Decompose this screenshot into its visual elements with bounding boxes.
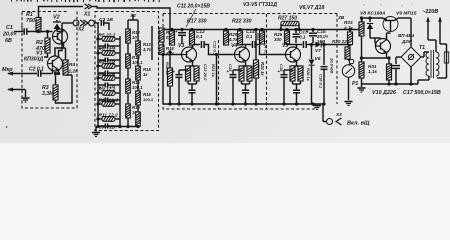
capacitor C17 bbox=[390, 57, 402, 84]
main supply bus bbox=[163, 29, 362, 31]
svg-text:КП303Д: КП303Д bbox=[24, 57, 43, 63]
transformer secondary winding bbox=[436, 52, 439, 76]
arrow mic shield bbox=[7, 88, 26, 92]
svg-text:Д2Ж: Д2Ж bbox=[401, 39, 413, 44]
resistor R1 bbox=[36, 18, 41, 33]
diode V7 bbox=[287, 41, 352, 48]
zener V8 bbox=[367, 16, 373, 38]
wire shield to gnd bbox=[25, 90, 27, 98]
resistor col B2 bbox=[136, 55, 152, 80]
label C14 rot bbox=[330, 57, 335, 73]
svg-text:R22 330: R22 330 bbox=[232, 19, 252, 25]
svg-text:0,1: 0,1 bbox=[299, 35, 306, 40]
svg-text:Вкл. вЩ: Вкл. вЩ bbox=[347, 121, 370, 127]
svg-text:R27 150: R27 150 bbox=[278, 16, 297, 22]
coupling cap st3 bbox=[240, 41, 285, 56]
svg-text:С12 0,1: С12 0,1 bbox=[213, 41, 218, 56]
wire bottom to tone bbox=[162, 55, 164, 105]
svg-text:С2 0,1: С2 0,1 bbox=[29, 67, 44, 73]
svg-text:+: + bbox=[21, 25, 24, 31]
svg-text:С17 500,0×15В: С17 500,0×15В bbox=[403, 90, 441, 96]
label Vkl bbox=[347, 121, 370, 127]
svg-text:R18 1к: R18 1к bbox=[165, 62, 170, 76]
label 220V bbox=[422, 9, 438, 15]
transistor V3 bbox=[182, 47, 197, 62]
svg-text:R33: R33 bbox=[344, 20, 353, 25]
fuse bbox=[437, 52, 449, 78]
transistor V4 bbox=[235, 47, 250, 62]
svg-text:R28 1к: R28 1к bbox=[306, 68, 311, 82]
resistor-capacitor row 2 bbox=[96, 47, 120, 64]
scan smudges top right bbox=[363, 3, 412, 6]
meter P1 bbox=[342, 65, 358, 87]
wire bridge bottom bbox=[410, 67, 412, 84]
svg-text:X2: X2 bbox=[77, 27, 84, 33]
wire collector V3 bbox=[191, 45, 194, 48]
svg-text:6В: 6В bbox=[5, 38, 12, 44]
resistor R4 bbox=[63, 48, 68, 75]
capacitor bypass V5 bbox=[278, 64, 293, 104]
wire X2 into box bbox=[95, 22, 100, 24]
label V10 D226 bbox=[372, 90, 397, 96]
label R30 22k bbox=[332, 39, 350, 44]
wire collector V4 bbox=[240, 45, 246, 48]
psu rail bbox=[362, 18, 383, 30]
label C10 rot bbox=[203, 64, 208, 81]
resistor-capacitor row 3 bbox=[96, 60, 120, 77]
svg-text:R8 12,2: R8 12,2 bbox=[99, 72, 116, 78]
label st2b rot bbox=[256, 64, 261, 79]
resistor R31 left bbox=[359, 58, 364, 84]
label V4 bbox=[231, 43, 237, 49]
resistor R12 bbox=[126, 20, 141, 43]
svg-text:С11 20,0×15В: С11 20,0×15В bbox=[177, 4, 210, 10]
label C13 0,1 bbox=[299, 30, 308, 40]
capacitor V5 bottom bbox=[293, 86, 300, 104]
svg-text:R10 12,2: R10 12,2 bbox=[99, 98, 119, 104]
label r20 bbox=[165, 62, 170, 76]
label R2 470 bbox=[35, 40, 45, 52]
svg-text:V3-V5 ГТ311Д: V3-V5 ГТ311Д bbox=[243, 2, 277, 8]
svg-text:+: + bbox=[175, 29, 178, 34]
resistor-capacitor row 4 bbox=[96, 72, 120, 89]
wire stage1 out bbox=[192, 45, 194, 48]
svg-text:R21 1к: R21 1к bbox=[211, 64, 216, 78]
capacitor C15 electrolytic bbox=[306, 28, 317, 43]
ground meter bbox=[345, 102, 353, 106]
resistor R13 bbox=[126, 43, 144, 68]
label C11 20,0x15B bbox=[177, 4, 210, 10]
svg-text:ВП-4В4: ВП-4В4 bbox=[398, 33, 415, 38]
dashed box tone bbox=[95, 12, 159, 131]
resistor emitter V4 pair bbox=[239, 66, 252, 86]
wire tone top right bbox=[128, 13, 152, 60]
resistor R34 bbox=[360, 56, 392, 84]
svg-text:V4: V4 bbox=[231, 43, 237, 49]
label R22 330 bbox=[232, 19, 252, 25]
dashed box amplifier bbox=[163, 14, 337, 110]
capacitor C10 bottom bbox=[189, 86, 196, 104]
svg-text:С13 20,0: С13 20,0 bbox=[203, 64, 208, 81]
svg-text:10: 10 bbox=[132, 35, 137, 40]
resistor R24 bbox=[238, 28, 243, 45]
label V5 bbox=[282, 43, 288, 49]
wire bottom left block bbox=[56, 75, 73, 103]
label R21 rot bbox=[211, 64, 216, 78]
connector X3 bbox=[327, 118, 342, 125]
connector X1 bbox=[85, 4, 93, 9]
svg-text:V7: V7 bbox=[315, 48, 321, 54]
wire bias stage1 bbox=[215, 53, 218, 106]
scan artifact top edge bbox=[11, 0, 160, 2]
svg-text:R5 22,2: R5 22,2 bbox=[99, 33, 116, 39]
dashed divider stage3 bbox=[266, 14, 268, 109]
coupling cap C12 bbox=[193, 41, 235, 56]
transistor V1a bbox=[53, 29, 68, 44]
label X3 bbox=[335, 112, 342, 117]
resistor-capacitor row 5 bbox=[96, 87, 120, 104]
bridge rectifier bbox=[401, 47, 421, 67]
resistor R16b bbox=[159, 45, 175, 56]
transistor V9 bbox=[383, 17, 398, 32]
resistor lower st2 bbox=[254, 28, 259, 104]
label C1 20,0x6B bbox=[2, 25, 17, 44]
svg-text:R11 12,2: R11 12,2 bbox=[99, 113, 118, 119]
dashed box preamp bbox=[22, 12, 77, 109]
svg-text:X1: X1 bbox=[83, 12, 90, 18]
resistor-capacitor row 7 bbox=[96, 113, 120, 130]
svg-text:0,1: 0,1 bbox=[196, 34, 203, 39]
wire X1 to tone box bbox=[93, 7, 171, 30]
svg-text:V9 МП15: V9 МП15 bbox=[396, 11, 417, 17]
label V8 V9 bbox=[360, 11, 417, 17]
label C17 500 bbox=[403, 90, 441, 96]
label 3B bbox=[338, 15, 345, 21]
wire emitter V4 bbox=[242, 61, 250, 66]
transistor V1b bbox=[48, 56, 63, 71]
label VP bbox=[398, 33, 415, 44]
label st2 rot bbox=[260, 62, 265, 76]
mains terminal 2 bbox=[438, 17, 446, 53]
wire meter down bbox=[348, 77, 350, 100]
label R1 750 bbox=[26, 12, 35, 24]
label R31 bbox=[368, 64, 378, 74]
wire tone bottom bbox=[96, 125, 139, 128]
wire bridge to transformer bbox=[421, 52, 427, 57]
connector X2 bbox=[73, 20, 94, 26]
svg-text:R30 22к: R30 22к bbox=[332, 39, 350, 44]
svg-text:R4: R4 bbox=[69, 62, 75, 68]
label C14 0,1 bbox=[246, 29, 255, 39]
resistor R30 bbox=[343, 20, 354, 45]
capacitor C11 filter bbox=[175, 28, 186, 44]
svg-text:4,7к: 4,7к bbox=[343, 26, 354, 31]
capacitor C13 bbox=[293, 28, 300, 43]
svg-text:С1: С1 bbox=[6, 25, 13, 31]
transformer primary winding bbox=[426, 52, 429, 76]
wire base V3 bbox=[161, 53, 181, 56]
resistor R32 bbox=[359, 16, 364, 42]
resistor R3 bbox=[53, 72, 58, 100]
svg-text:4,7к: 4,7к bbox=[142, 47, 152, 52]
svg-text:V2: V2 bbox=[53, 15, 60, 21]
psu ground bus bbox=[362, 82, 419, 85]
label V3 bbox=[178, 43, 184, 49]
wire V9 collector bbox=[398, 18, 411, 47]
label C15 bbox=[316, 29, 329, 44]
bottom bus bbox=[163, 102, 326, 105]
wire tone gnd stub bbox=[96, 127, 98, 132]
label R4 1,2k bbox=[69, 62, 79, 75]
svg-text:330: 330 bbox=[274, 37, 282, 42]
svg-text:~220В: ~220В bbox=[422, 9, 438, 15]
diode V2 bbox=[53, 20, 61, 32]
resistor R21 emitter pair bbox=[186, 66, 200, 86]
svg-text:У2: У2 bbox=[130, 13, 136, 18]
resistor-capacitor row 6 bbox=[96, 98, 120, 107]
svg-text:+: + bbox=[390, 62, 393, 67]
label R3 3,3M bbox=[42, 85, 54, 97]
label st3b rot bbox=[306, 68, 311, 82]
svg-text:750: 750 bbox=[26, 18, 35, 24]
capacitor C3 bbox=[101, 20, 109, 30]
resistor R17a bbox=[170, 28, 175, 45]
scan speck bottom left bbox=[6, 126, 8, 128]
resistor R16 bbox=[126, 93, 141, 127]
mains terminal 1 bbox=[426, 17, 436, 53]
label V6 V7 bbox=[299, 5, 324, 11]
wire out to X2 bbox=[44, 53, 48, 57]
label Mkr bbox=[2, 67, 13, 73]
resistor R19 bbox=[190, 28, 195, 45]
resistor col B4 bbox=[136, 105, 141, 126]
svg-text:V6,V7 Д18: V6,V7 Д18 bbox=[299, 5, 324, 11]
wire collector V1b up bbox=[59, 23, 63, 57]
label X1 bbox=[83, 12, 90, 18]
svg-text:V3: V3 bbox=[178, 43, 184, 49]
capacitor C2 bbox=[38, 68, 52, 77]
svg-text:Р1: Р1 bbox=[352, 81, 358, 87]
wire emitter V5 bbox=[293, 61, 301, 66]
wire collector V1a bbox=[57, 29, 64, 32]
svg-text:1,2к: 1,2к bbox=[69, 69, 79, 75]
resistor R2 bbox=[45, 32, 50, 54]
svg-text:R24 1к: R24 1к bbox=[260, 62, 265, 76]
ground mic bbox=[22, 98, 30, 102]
transistor V5 bbox=[286, 47, 301, 62]
resistor R16a bbox=[159, 28, 174, 42]
resistor R15 bbox=[126, 68, 144, 93]
ground psu bbox=[358, 84, 366, 92]
capacitor C9 bypass bbox=[173, 69, 189, 104]
wire V10 links bbox=[362, 33, 391, 58]
arrow C11 bbox=[186, 9, 196, 27]
input node wire bbox=[161, 28, 164, 55]
resistor-capacitor row 1 bbox=[96, 33, 120, 50]
svg-text:1,1к: 1,1к bbox=[368, 69, 378, 74]
wire x3 down bbox=[323, 104, 326, 122]
label V1 KP303D bbox=[24, 51, 43, 63]
svg-text:100,1: 100,1 bbox=[143, 97, 154, 102]
svg-text:3,3М: 3,3М bbox=[42, 91, 54, 97]
wire V10 base bbox=[370, 38, 381, 43]
svg-text:R23: R23 bbox=[256, 33, 261, 41]
diode V6 bbox=[309, 45, 315, 105]
svg-text:+: + bbox=[227, 69, 230, 74]
resistor emitter V5 pair bbox=[290, 66, 303, 86]
label R27 150 bbox=[278, 16, 297, 22]
capacitor C1 bbox=[14, 25, 27, 35]
svg-text:V10 Д226: V10 Д226 bbox=[372, 90, 397, 96]
svg-text:R9 12,2: R9 12,2 bbox=[99, 87, 116, 93]
svg-text:20,0×6В: 20,0×6В bbox=[330, 57, 335, 73]
svg-text:X3: X3 bbox=[335, 112, 342, 117]
capacitor V4 bottom bbox=[242, 86, 249, 104]
resistor R25 bbox=[256, 28, 265, 44]
label R26 330 bbox=[274, 32, 283, 42]
svg-text:R6 12,2: R6 12,2 bbox=[99, 47, 116, 53]
label V2 bbox=[53, 15, 60, 21]
label C2 0,1 bbox=[29, 67, 44, 73]
svg-text:+: + bbox=[278, 69, 281, 74]
wire X2 link bbox=[62, 22, 73, 24]
wire V1a emitter to V1b bbox=[55, 43, 64, 57]
svg-text:0,1: 0,1 bbox=[246, 34, 253, 39]
ground amp mid bbox=[313, 104, 321, 110]
label C12 0,1 bbox=[196, 29, 205, 39]
arrow mic signal bbox=[7, 72, 37, 76]
label X2 bbox=[77, 27, 84, 33]
svg-text:R7 12,2: R7 12,2 bbox=[99, 60, 116, 66]
svg-text:V8 КС168А: V8 КС168А bbox=[360, 11, 386, 17]
capacitor bypass V4 bbox=[227, 64, 242, 104]
label C3 1B bbox=[99, 17, 113, 23]
label V6 bbox=[315, 56, 321, 62]
wire collector V5 bbox=[287, 44, 297, 48]
svg-text:20,0×: 20,0× bbox=[2, 32, 17, 38]
svg-text:4,7к: 4,7к bbox=[228, 37, 238, 42]
transistor V10reg bbox=[376, 39, 391, 54]
wire top supply rail bbox=[39, 7, 84, 18]
wire base V4 bbox=[0, 0, 1, 1]
label T1 bbox=[419, 45, 425, 51]
wire C1 to base bbox=[27, 30, 53, 33]
svg-text:С16 0,1: С16 0,1 bbox=[319, 74, 324, 89]
resistor R26 bbox=[285, 28, 290, 44]
label V3-V5 bbox=[243, 2, 277, 8]
resistor R20 lower bbox=[168, 50, 173, 104]
dashed divider stage2 bbox=[218, 40, 220, 109]
svg-text:3В: 3В bbox=[338, 15, 345, 21]
svg-text:Т1: Т1 bbox=[419, 45, 425, 51]
resistor col B3 bbox=[136, 80, 154, 105]
capacitor C16 bbox=[319, 45, 328, 105]
ground tone box bbox=[92, 133, 100, 137]
wire tone mid column bbox=[119, 36, 121, 127]
wire emitter V3 down bbox=[188, 61, 197, 66]
svg-text:+: + bbox=[306, 29, 309, 34]
svg-text:V6: V6 bbox=[315, 56, 321, 62]
resistor R30b bbox=[345, 45, 354, 66]
label R17 330 bbox=[187, 19, 207, 25]
wire tone left column bbox=[98, 23, 99, 127]
wire emitter V1b down bbox=[56, 70, 61, 75]
transformer core bbox=[431, 50, 434, 78]
resistor R23 bbox=[224, 28, 239, 45]
wire transformer bottom bbox=[418, 76, 429, 84]
resistor R27 series bbox=[279, 21, 300, 31]
label V7 bbox=[315, 48, 321, 54]
resistor col B1 bbox=[136, 30, 152, 55]
